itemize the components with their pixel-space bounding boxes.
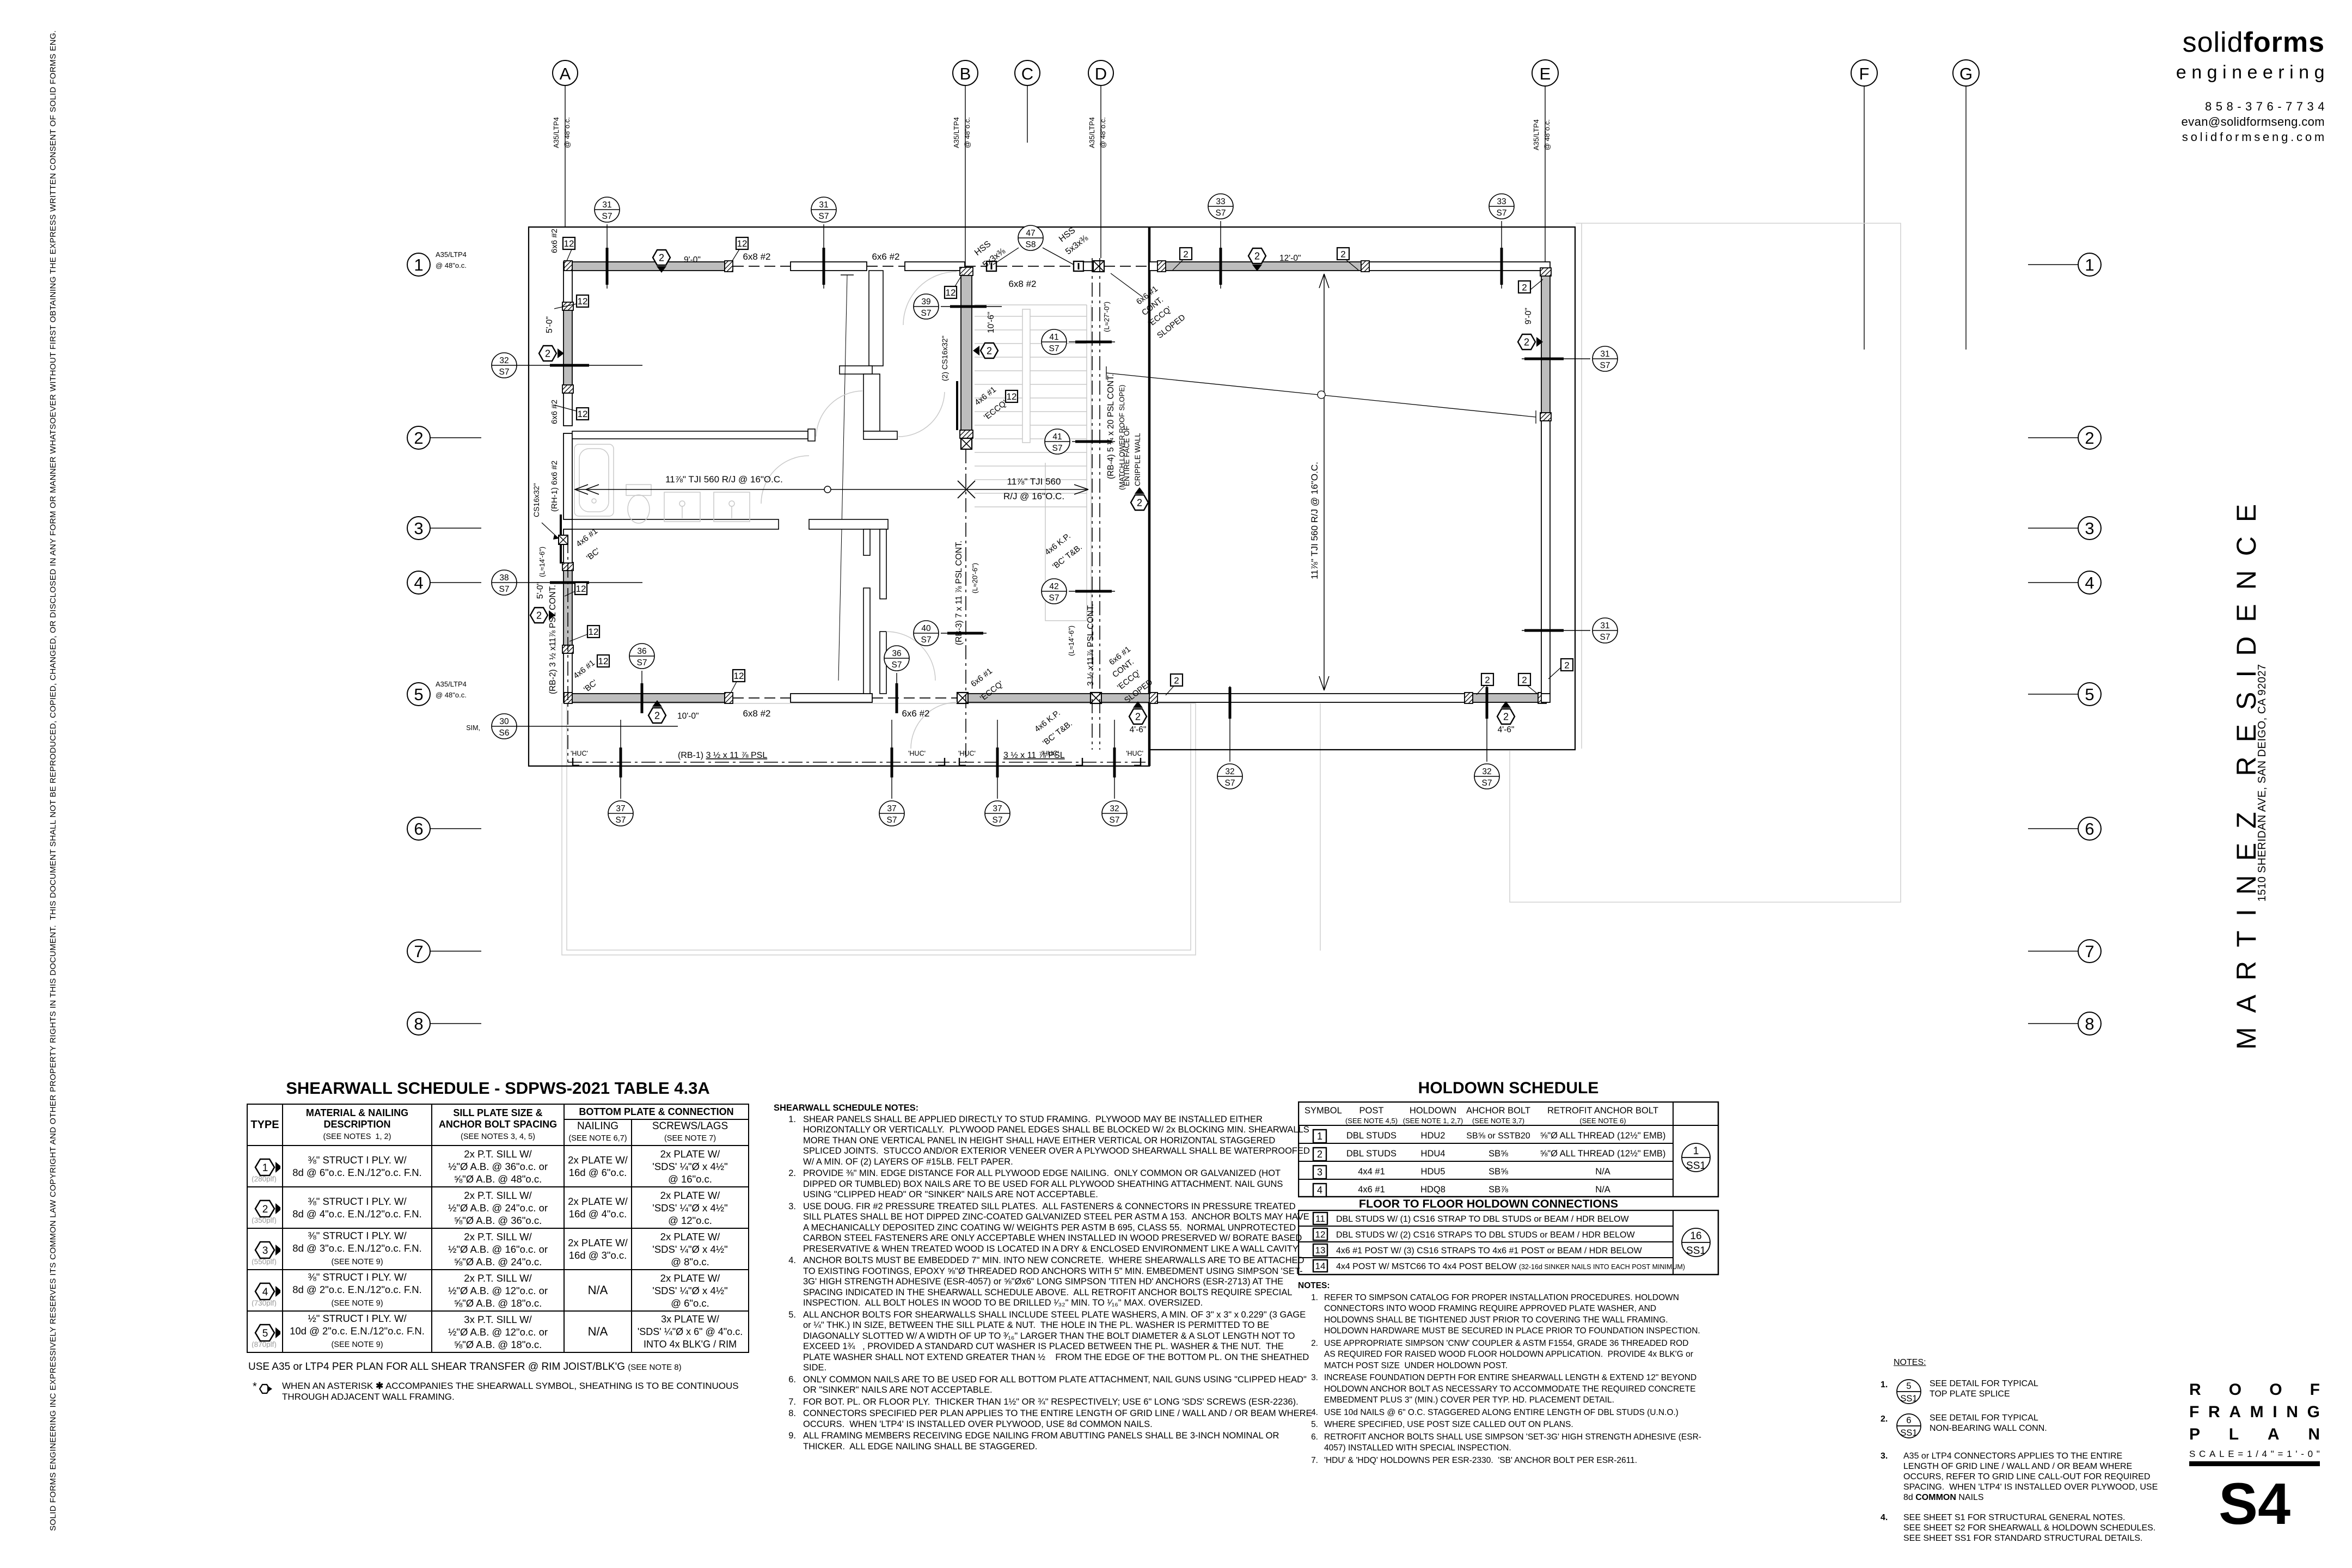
svg-text:2: 2: [1340, 249, 1345, 260]
svg-text:12: 12: [1007, 391, 1017, 402]
svg-text:1: 1: [262, 1162, 268, 1174]
bottom wall: corner stub: [563, 694, 572, 702]
svg-text:5: 5: [2085, 685, 2094, 704]
svg-text:A: A: [560, 64, 571, 83]
bottom wall corner right: [1541, 694, 1550, 702]
svg-text:(870plf): (870plf): [252, 1340, 277, 1348]
svg-text:8: 8: [2085, 1014, 2094, 1033]
lower roof outline right (light): [1320, 223, 1901, 951]
hex marker 2 central 10'-6": [973, 343, 998, 358]
svg-text:12: 12: [734, 671, 744, 681]
svg-text:DBL STUDS: DBL STUDS: [1346, 1149, 1396, 1159]
X box on strap: [559, 535, 568, 544]
door arc stairs hall: [903, 272, 957, 325]
svg-text:2: 2: [545, 348, 550, 359]
svg-text:12: 12: [578, 409, 588, 419]
beam 6x6#2 dashed (bottom): [872, 697, 957, 699]
svg-text:S7: S7: [921, 635, 932, 645]
svg-text:42: 42: [1049, 582, 1058, 591]
svg-text:S7: S7: [819, 212, 829, 221]
svg-text:S8: S8: [1026, 240, 1036, 249]
sink 1: [664, 492, 700, 522]
left edge copyright vertical text: [0, 0, 65, 1568]
svg-text:2: 2: [1254, 251, 1260, 262]
svg-text:2: 2: [262, 1204, 268, 1215]
svg-text:SS1: SS1: [1900, 1428, 1917, 1438]
svg-text:S6: S6: [499, 728, 510, 738]
svg-text:2: 2: [1503, 712, 1509, 722]
grid line D: [1088, 60, 1113, 258]
svg-text:31: 31: [602, 200, 611, 210]
beam 6x8#2 dashed (bottom): [733, 697, 791, 699]
detail bubble 31/S7 right wall upper: [1522, 346, 1618, 371]
partition closet wall upper: [869, 271, 883, 366]
svg-text:A35/LTP4: A35/LTP4: [436, 680, 467, 688]
hex marker 2 top-right 12'-0": [1248, 248, 1266, 271]
RB-2 beam line: [567, 539, 568, 762]
svg-text:10'-0": 10'-0": [677, 712, 699, 721]
RB-4 beam line (double): [1092, 258, 1093, 750]
svg-text:41: 41: [1049, 333, 1058, 342]
shearwall bottom-left 10'-0": [572, 694, 725, 702]
svg-text:3: 3: [262, 1245, 268, 1257]
svg-text:36: 36: [892, 649, 901, 658]
svg-text:5: 5: [1906, 1381, 1911, 1391]
svg-text:5'-0": 5'-0": [536, 582, 545, 599]
svg-text:'HUC': 'HUC': [958, 750, 976, 757]
svg-text:DBL STUDS W/ (2) CS16 STRAPS T: DBL STUDS W/ (2) CS16 STRAPS TO DBL STUD…: [1336, 1230, 1635, 1240]
svg-text:14: 14: [1315, 1261, 1326, 1271]
svg-text:@ 48"o.c.: @ 48"o.c.: [563, 117, 571, 148]
diagonal HSS labels: [973, 225, 1090, 269]
svg-text:3: 3: [2085, 519, 2094, 538]
detail bubble 33/S7 top E: [1208, 194, 1233, 289]
svg-text:31: 31: [819, 200, 828, 210]
door arc at bottom opening: [911, 702, 957, 749]
HUC hooks on RB-1: [573, 758, 1141, 765]
svg-text:S7: S7: [1216, 209, 1226, 218]
svg-text:'BC': 'BC': [585, 546, 602, 562]
svg-text:G: G: [1959, 64, 1973, 83]
svg-text:11⅞" TJI 560: 11⅞" TJI 560: [1007, 476, 1061, 487]
detail bubble 32/S7 under right room right: [1474, 686, 1499, 789]
detail bubble 40/S7: [914, 621, 987, 646]
svg-text:6x8 #2: 6x8 #2: [1008, 279, 1036, 289]
detail bubble 39/S7 central SW: [914, 294, 1002, 319]
hex marker 2 left wall lower 5'-0": [530, 608, 555, 623]
detail bubble 31/S7 top B: [811, 197, 836, 289]
detail bubble 32/S7 under right room left: [1217, 686, 1242, 789]
svg-text:2: 2: [659, 253, 664, 264]
svg-text:1: 1: [1317, 1131, 1322, 1142]
svg-text:7: 7: [414, 942, 423, 961]
svg-text:31: 31: [1600, 350, 1609, 359]
diagonal 4x6 #1 ECCQ at central SW: [973, 385, 1009, 422]
svg-text:11⅞" TJI 560 R/J @ 16"O.C.: 11⅞" TJI 560 R/J @ 16"O.C.: [665, 474, 783, 485]
svg-text:6: 6: [2085, 819, 2094, 838]
svg-text:SB⅞: SB⅞: [1489, 1185, 1508, 1195]
svg-text:4x6 #1: 4x6 #1: [574, 526, 599, 549]
svg-text:SS1: SS1: [1686, 1160, 1706, 1172]
svg-text:(RB-3) 7 x 11 ⅞ PSL CONT.: (RB-3) 7 x 11 ⅞ PSL CONT.: [954, 541, 964, 645]
svg-text:⅝"Ø ALL THREAD (12½" EMB): ⅝"Ø ALL THREAD (12½" EMB): [1540, 1131, 1666, 1141]
svg-text:(MATCH LOWER ROOF SLOPE): (MATCH LOWER ROOF SLOPE): [1118, 385, 1126, 490]
detail bubble 37/S7 b2: [879, 720, 904, 826]
svg-text:2: 2: [1564, 660, 1569, 671]
detail bubble 36/S7 left: [629, 644, 654, 713]
svg-text:2: 2: [654, 710, 660, 721]
bath south wall left: [572, 519, 779, 529]
door arc bath: [761, 456, 809, 504]
svg-text:(280plf): (280plf): [252, 1175, 277, 1183]
HOLDOWN SCHEDULE table: [1298, 1101, 1723, 1199]
door arc hall: [816, 391, 862, 437]
svg-text:(730plf): (730plf): [252, 1299, 277, 1307]
SHEARWALL SCHEDULE title: [247, 1079, 749, 1098]
left wall at bath: [563, 433, 572, 519]
svg-text:12: 12: [598, 656, 609, 666]
svg-text:3 ½ x 11 ⅞ PSL: 3 ½ x 11 ⅞ PSL: [1003, 751, 1065, 760]
svg-text:5: 5: [262, 1328, 268, 1339]
SHEARWALL SCHEDULE table: [247, 1104, 749, 1353]
grid line F: [1851, 60, 1877, 350]
svg-text:(L≈14'-6"): (L≈14'-6"): [538, 547, 546, 577]
RB-3 beam line: [965, 449, 966, 762]
svg-text:S7: S7: [499, 367, 510, 377]
svg-text:3: 3: [1317, 1167, 1322, 1178]
TJI joist span arrow left: [575, 481, 1088, 498]
svg-text:3 ½ x11⅞ PSL CONT.: 3 ½ x11⅞ PSL CONT.: [1086, 604, 1095, 686]
svg-text:4'-6": 4'-6": [1498, 725, 1515, 734]
svg-text:@ 48"o.c.: @ 48"o.c.: [436, 261, 467, 269]
svg-text:2: 2: [1317, 1149, 1322, 1160]
svg-text:37: 37: [616, 804, 625, 813]
hex marker 2 bottom-mid 4'-6": [1129, 701, 1147, 724]
svg-text:12: 12: [576, 584, 586, 594]
svg-text:S7: S7: [1049, 593, 1059, 603]
svg-text:S7: S7: [1225, 779, 1235, 788]
shearwall left upper 5'-0": [563, 310, 572, 385]
svg-text:(L≈14'-6"): (L≈14'-6"): [1067, 626, 1075, 656]
svg-text:SIM,: SIM,: [466, 724, 480, 732]
label 12: [563, 237, 575, 261]
svg-text:(RB-1) 3 ½ x 11 ⅞ PSL: (RB-1) 3 ½ x 11 ⅞ PSL: [678, 751, 767, 760]
svg-text:S7: S7: [1052, 444, 1063, 453]
svg-text:SS1: SS1: [1900, 1394, 1917, 1404]
partition bottom cap: [863, 431, 897, 439]
svg-text:'ECCQ': 'ECCQ': [982, 398, 1009, 422]
SHEARWALL SCHEDULE NOTES: [774, 1103, 1314, 1453]
diagonal 6x6 #1 ECCQ bottom: [969, 666, 1005, 703]
svg-text:32: 32: [1482, 767, 1491, 776]
svg-text:6x8 #2: 6x8 #2: [743, 252, 770, 262]
svg-text:3: 3: [414, 519, 423, 538]
A35/LTP4 note at row 5: [436, 680, 467, 699]
partition closet stub: [840, 366, 872, 374]
svg-text:'BC': 'BC': [582, 678, 599, 694]
svg-text:9'-0": 9'-0": [1524, 308, 1533, 324]
svg-text:11⅞" TJI 560 R/J @ 16"O.C.: 11⅞" TJI 560 R/J @ 16"O.C.: [1309, 462, 1320, 579]
svg-text:4: 4: [1317, 1185, 1322, 1196]
CS16 strap bar: [560, 514, 562, 563]
svg-text:A35/LTP4: A35/LTP4: [436, 250, 467, 259]
bubble 16/SS1: [1682, 1228, 1710, 1257]
diagonal 6x6 #1 CONT ECCQ SLOPED bottom: [1107, 645, 1155, 705]
svg-text:6x6 #2: 6x6 #2: [872, 252, 899, 262]
svg-text:S7: S7: [1049, 344, 1059, 353]
beam 6x8#2 dashed (top): [733, 266, 791, 267]
svg-text:S7: S7: [887, 816, 897, 825]
svg-text:SYMBOL: SYMBOL: [1304, 1106, 1342, 1116]
lower roof outline left (light): [562, 703, 1196, 955]
svg-text:@ 48"o.c.: @ 48"o.c.: [1543, 119, 1551, 150]
svg-text:41: 41: [1052, 432, 1062, 442]
svg-text:SB⅝: SB⅝: [1489, 1167, 1508, 1177]
detail bubble 41/S7 upper: [1042, 329, 1115, 354]
right room top wall to corner: [1369, 262, 1550, 271]
svg-text:S7: S7: [499, 585, 510, 594]
beam dashed to divide: [1104, 266, 1149, 267]
svg-text:N/A: N/A: [1595, 1185, 1610, 1195]
right room top wall white seg: [1149, 262, 1165, 271]
svg-text:*: *: [253, 1382, 257, 1393]
hex marker 2 cripple wall: [1131, 487, 1148, 510]
diagonal 4x6 K.P. labels: [1033, 531, 1084, 748]
top wall corner stub: [563, 262, 572, 271]
svg-text:'HUC': 'HUC': [1126, 750, 1143, 757]
row bubbles left 1-8: [430, 438, 481, 1024]
svg-text:D: D: [1095, 64, 1107, 83]
svg-text:A35/LTP4: A35/LTP4: [952, 117, 960, 148]
svg-text:DBL STUDS: DBL STUDS: [1346, 1131, 1396, 1141]
shearwall left lower 5'-0": [563, 570, 572, 646]
svg-text:CRIPPLE WALL: CRIPPLE WALL: [1134, 433, 1142, 486]
diagonal 6x6 #1 CONT ECCQ SLOPED top: [1111, 273, 1187, 340]
hex marker 2 left wall upper 5'-0": [539, 346, 564, 361]
svg-text:A35/LTP4: A35/LTP4: [552, 117, 560, 148]
svg-text:1: 1: [414, 255, 423, 274]
brand block top right: [2123, 26, 2325, 144]
HOLDOWN SCHEDULE title: [1298, 1079, 1719, 1098]
detail bubble 36/S7 right: [884, 646, 909, 713]
beam 6x6#2 dashed (top): [867, 266, 905, 267]
svg-text:1: 1: [2085, 255, 2094, 274]
X box at D-line top: [1093, 261, 1104, 272]
door arc lower room: [886, 632, 935, 681]
plan outer boundary: [529, 227, 1575, 766]
grid line G: [1953, 60, 1979, 350]
svg-text:2: 2: [1135, 712, 1141, 722]
A35/LTP4 note at row 1: [436, 250, 467, 269]
detail bubble 37/S7 b3: [985, 720, 1010, 826]
HSS connector boxes: [987, 261, 996, 271]
svg-text:4'-6": 4'-6": [1130, 725, 1147, 734]
partition v3b: [880, 529, 886, 599]
svg-text:S7: S7: [993, 816, 1003, 825]
svg-text:5'-0": 5'-0": [545, 316, 554, 333]
svg-text:33: 33: [1497, 197, 1506, 206]
svg-text:4x4 POST W/ MSTC66 TO 4x4 POST: 4x4 POST W/ MSTC66 TO 4x4 POST BELOW (32…: [1336, 1262, 1685, 1271]
svg-text:@ 48"o.c.: @ 48"o.c.: [1099, 117, 1107, 148]
svg-text:12: 12: [737, 238, 748, 249]
svg-text:S7: S7: [616, 816, 626, 825]
svg-text:16: 16: [1690, 1230, 1701, 1242]
svg-text:(RH-1) 6x6 #2: (RH-1) 6x6 #2: [550, 461, 559, 512]
hex marker 2 bottom-right 4'-6": [1497, 701, 1515, 724]
svg-text:31: 31: [1600, 621, 1609, 630]
svg-text:8: 8: [414, 1014, 423, 1033]
HOLDOWN NOTES: [1298, 1281, 1702, 1467]
svg-text:S7: S7: [637, 658, 647, 667]
right wall lower: [1541, 421, 1550, 694]
partition closet wall lower: [863, 374, 880, 431]
row bubbles right 1-8: [2028, 265, 2078, 1024]
svg-text:(L≈20'-6"): (L≈20'-6"): [971, 563, 979, 593]
shearwall top-right 12'-0": [1165, 262, 1361, 271]
grid line B: [952, 60, 978, 266]
svg-text:6x6 #2: 6x6 #2: [550, 229, 559, 253]
svg-text:F: F: [1859, 64, 1870, 83]
svg-text:4x6 #1 POST W/ (3) CS16 STRAPS: 4x6 #1 POST W/ (3) CS16 STRAPS TO 4x6 #1…: [1336, 1246, 1643, 1255]
shearwall bottom at divide: [1101, 694, 1149, 702]
detail bubble 31/S7 top A: [595, 197, 620, 289]
svg-text:@ 48"o.c.: @ 48"o.c.: [963, 117, 971, 148]
detail bubble 30/S6 SIM: [466, 714, 678, 739]
svg-text:38: 38: [499, 573, 509, 583]
svg-text:HDU5: HDU5: [1421, 1167, 1445, 1177]
svg-text:2: 2: [1137, 498, 1142, 509]
detail bubble 31/S7 right wall lower: [1522, 618, 1618, 643]
svg-text:32: 32: [1110, 804, 1119, 813]
svg-text:6x8 #2: 6x8 #2: [743, 708, 770, 719]
hex marker 2 bottom-left 10'-0": [648, 700, 666, 723]
svg-text:S7: S7: [1497, 209, 1507, 218]
svg-text:SS1: SS1: [1686, 1245, 1706, 1257]
svg-text:4x6 #1: 4x6 #1: [1358, 1185, 1385, 1195]
HSS beam dashed: [965, 266, 1083, 267]
svg-text:33: 33: [1216, 197, 1225, 206]
RB-1 beam line: [568, 762, 1149, 763]
svg-text:(SEE NOTE 3,7): (SEE NOTE 3,7): [1472, 1117, 1524, 1125]
svg-text:HOLDOWN: HOLDOWN: [1410, 1106, 1456, 1116]
svg-text:7: 7: [2085, 942, 2094, 961]
svg-text:1: 1: [1693, 1146, 1699, 1157]
svg-text:12: 12: [589, 627, 599, 637]
svg-text:12: 12: [578, 296, 588, 307]
detail bubble 42/S7: [1042, 579, 1115, 604]
shearwall bottom-right 4'-6": [1473, 694, 1538, 702]
svg-text:13: 13: [1315, 1245, 1326, 1255]
svg-text:SB⅝ or SSTB20: SB⅝ or SSTB20: [1466, 1131, 1530, 1141]
svg-text:S7: S7: [892, 660, 902, 670]
grid line C: [1015, 60, 1040, 143]
svg-text:(SEE NOTE 1, 2,7): (SEE NOTE 1, 2,7): [1403, 1117, 1463, 1125]
svg-text:DBL STUDS W/ (1) CS16 STRAP TO: DBL STUDS W/ (1) CS16 STRAP TO DBL STUDS…: [1336, 1215, 1629, 1224]
detail bubble 37/S7 b1: [608, 720, 633, 826]
FLOOR TO FLOOR HOLDOWN CONNECTIONS: [1298, 1197, 1679, 1211]
svg-text:(350plf): (350plf): [252, 1216, 277, 1224]
svg-text:'HUC': 'HUC': [908, 750, 926, 757]
svg-text:11: 11: [1315, 1214, 1325, 1224]
svg-text:2: 2: [1524, 337, 1529, 348]
wall seg: [905, 262, 965, 271]
svg-text:S7: S7: [602, 212, 612, 221]
svg-text:4: 4: [414, 573, 423, 592]
diagonal 4x6 #1 BC bottom-left: [572, 658, 599, 694]
svg-text:2: 2: [2085, 428, 2094, 448]
HUC text labels: [571, 750, 1143, 757]
svg-text:2: 2: [1174, 676, 1179, 686]
svg-text:12: 12: [946, 287, 956, 298]
svg-text:12: 12: [564, 238, 574, 249]
svg-text:A35/LTP4: A35/LTP4: [1088, 117, 1096, 148]
CS16 strap bar at central SW: [956, 381, 958, 430]
svg-text:32: 32: [1225, 767, 1234, 776]
detail bubble 41/S7 lower: [1045, 429, 1115, 454]
svg-text:37: 37: [993, 804, 1002, 813]
svg-text:S7: S7: [1600, 633, 1610, 642]
svg-text:6x6 #2: 6x6 #2: [550, 400, 559, 424]
svg-text:RETROFIT ANCHOR BOLT: RETROFIT ANCHOR BOLT: [1547, 1106, 1658, 1116]
svg-text:2: 2: [1522, 675, 1527, 685]
svg-text:(RB-2) 3 ½ x11⅞ PSL CONT.: (RB-2) 3 ½ x11⅞ PSL CONT.: [548, 585, 558, 694]
svg-text:E: E: [1540, 64, 1551, 83]
tub: [574, 444, 614, 516]
MARTINEZ RESIDENCE vertical: [2231, 490, 2262, 1050]
svg-text:4: 4: [2085, 573, 2094, 592]
svg-text:B: B: [960, 64, 971, 83]
bath north wall: [572, 431, 808, 439]
RIGHT NOTES block: [1881, 1357, 2159, 1543]
right room bottom wall white: [1157, 694, 1473, 702]
bath south wall right: [809, 519, 888, 529]
wall seg right of HSS: [1083, 262, 1093, 271]
svg-text:6: 6: [414, 819, 423, 838]
svg-text:AHCHOR BOLT: AHCHOR BOLT: [1466, 1106, 1530, 1116]
sink 2: [714, 492, 750, 522]
svg-text:A35/LTP4: A35/LTP4: [1532, 119, 1540, 150]
detail bubble 47/S8 HSS: [993, 225, 1074, 265]
partition v3a: [863, 529, 870, 555]
svg-text:4: 4: [262, 1287, 268, 1298]
detail bubble 33/S7 top right: [1489, 194, 1514, 289]
TJI joist span arrow right room (vertical): [1319, 274, 1329, 690]
svg-text:6x6 #1: 6x6 #1: [969, 666, 994, 689]
svg-text:POST: POST: [1359, 1106, 1384, 1116]
wall seg: [791, 262, 867, 271]
svg-text:4x6 #1: 4x6 #1: [973, 385, 998, 407]
wall seg bottom: [791, 694, 872, 702]
svg-text:32: 32: [499, 356, 509, 365]
svg-text:2: 2: [414, 428, 423, 448]
svg-text:S7: S7: [1600, 361, 1610, 370]
svg-text:HDU2: HDU2: [1421, 1131, 1445, 1141]
svg-text:R/J @ 16"O.C.: R/J @ 16"O.C.: [1003, 491, 1064, 501]
section leader line: [838, 275, 847, 681]
left wall seg above lower SW: [563, 529, 572, 563]
svg-text:6: 6: [1906, 1416, 1911, 1425]
hex marker 2 top-left 9'-0": [653, 250, 670, 273]
svg-text:HDU4: HDU4: [1421, 1149, 1445, 1159]
svg-text:12'-0": 12'-0": [1279, 254, 1301, 263]
svg-text:4x6 #1: 4x6 #1: [572, 658, 597, 681]
svg-text:9'-0": 9'-0": [684, 255, 701, 265]
label 2 squares: [1173, 248, 1192, 270]
left wall lower seg: [563, 653, 572, 694]
left wall mid seg: [563, 393, 572, 426]
svg-text:37: 37: [887, 804, 896, 813]
right wall upper stub: [1541, 271, 1550, 275]
